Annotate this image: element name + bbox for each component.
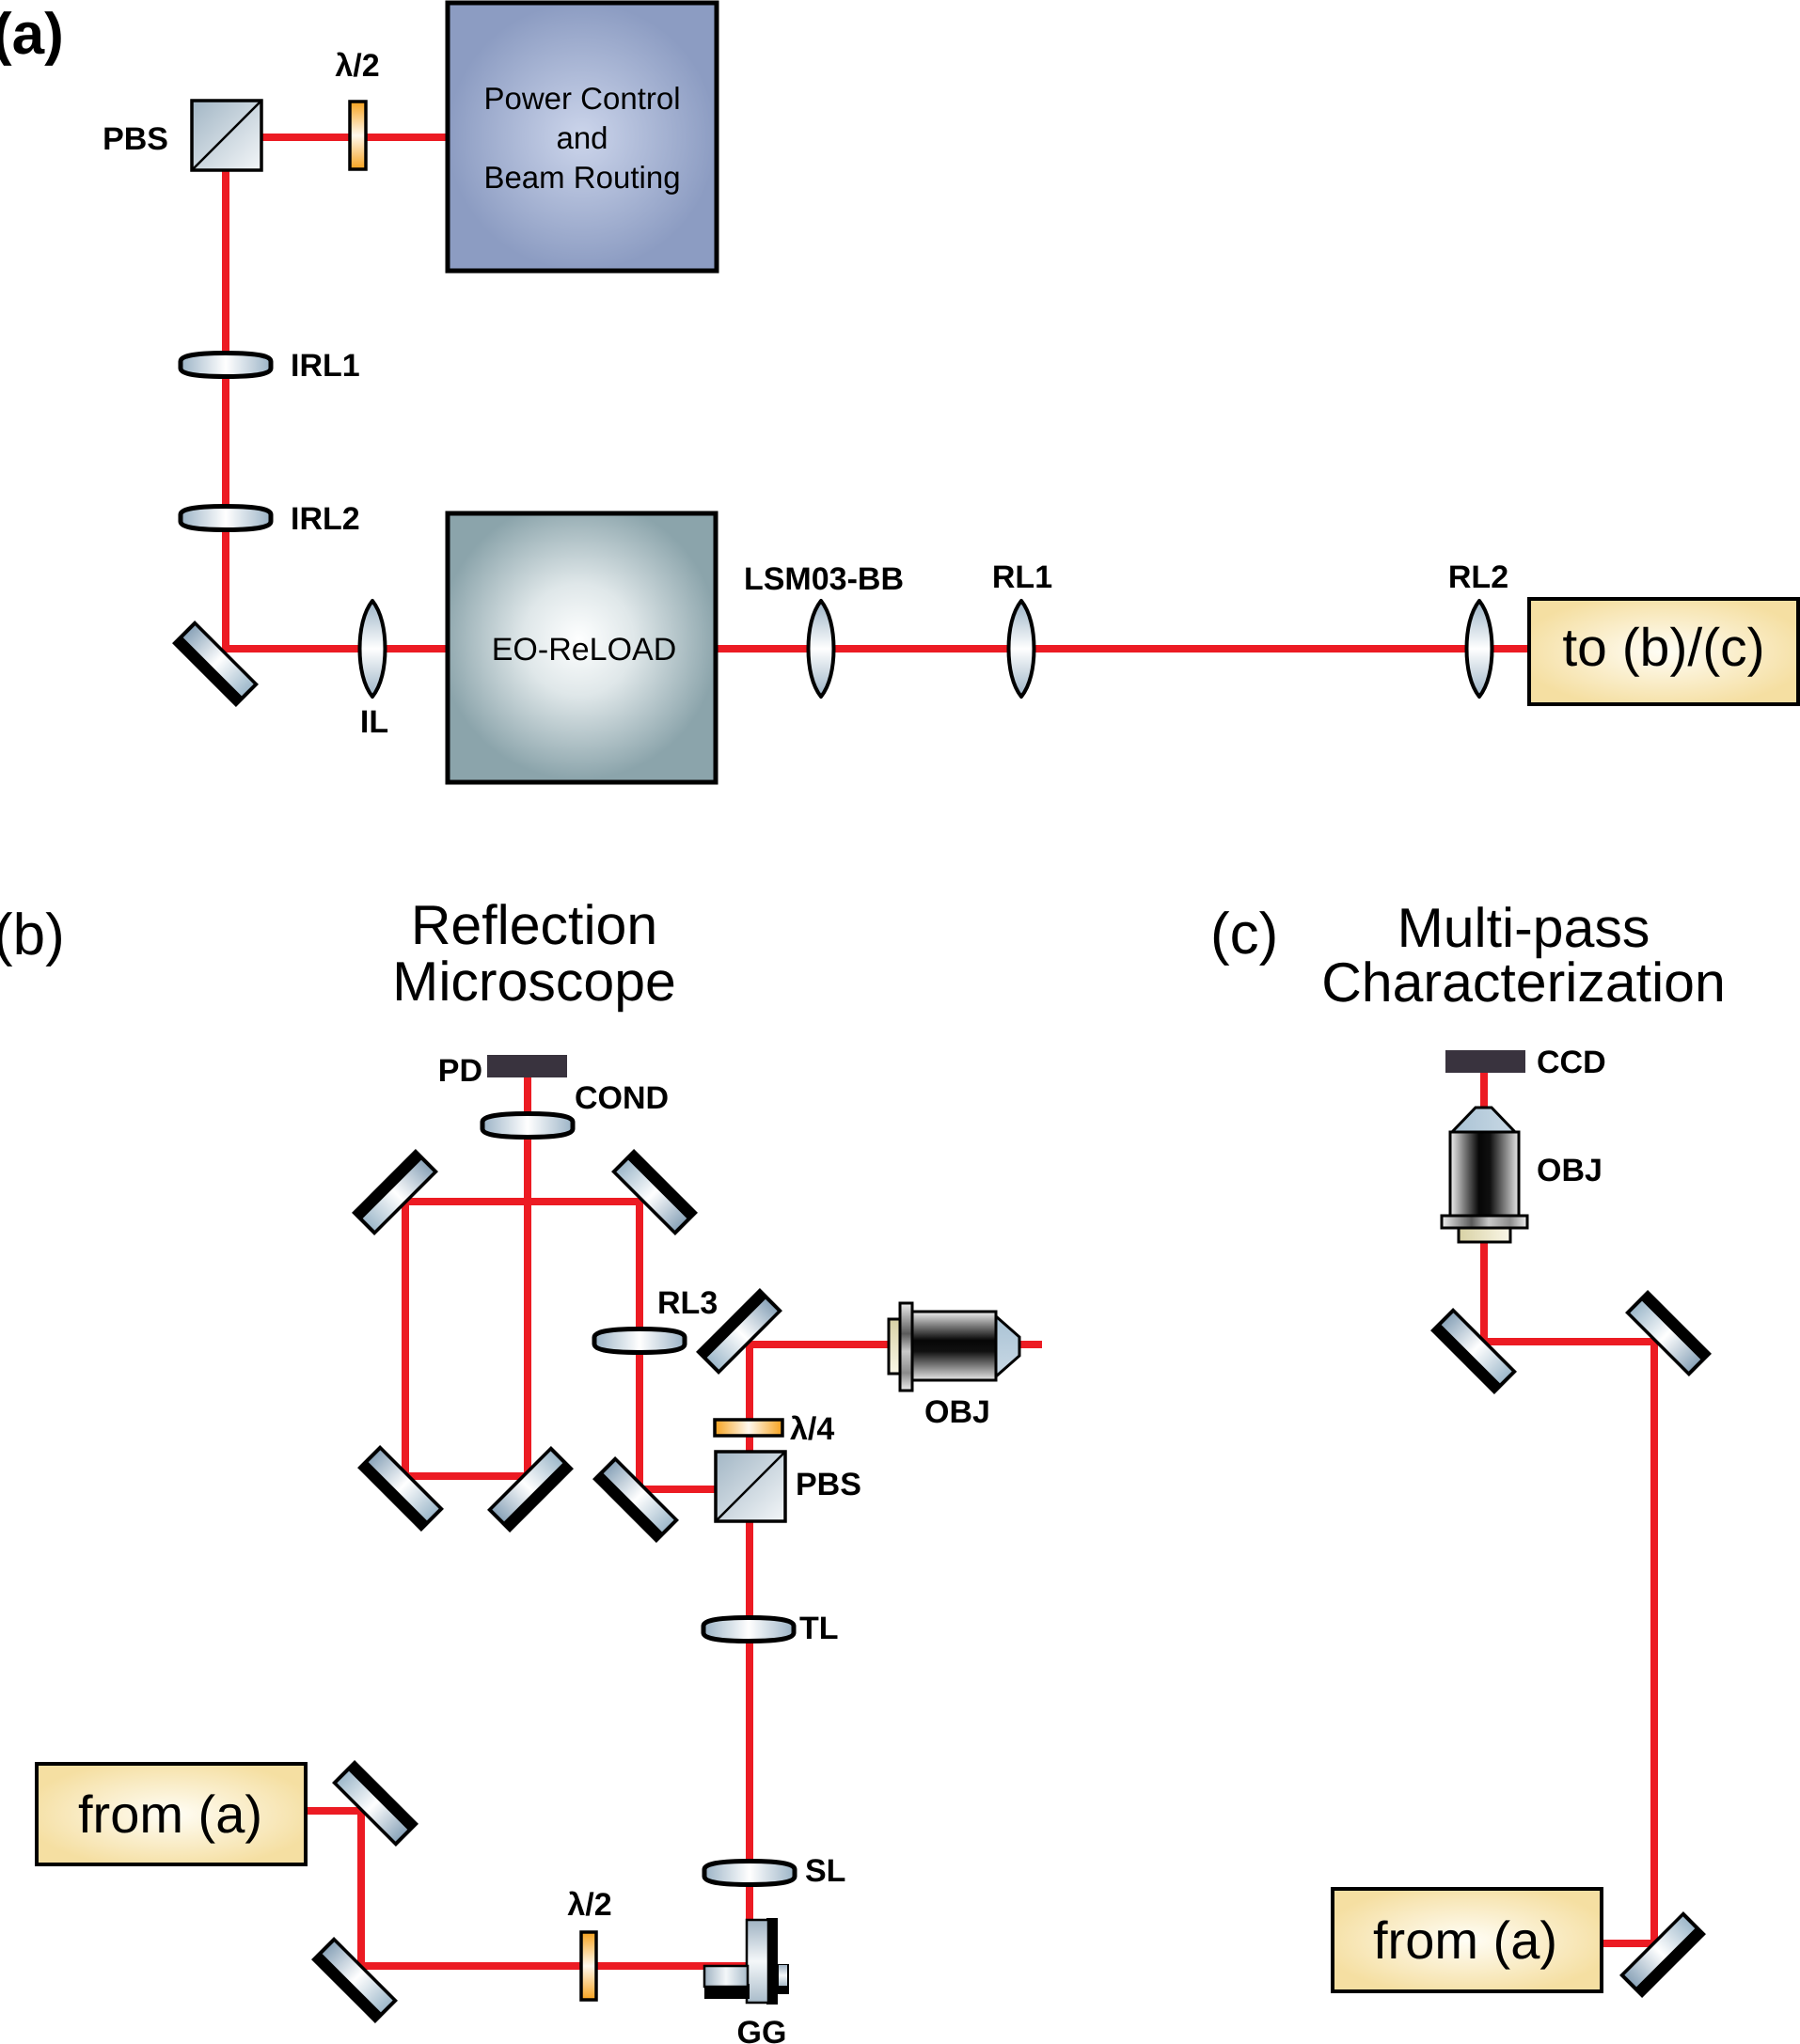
- objective OBJ (c) : cone tip: [1442, 1108, 1527, 1242]
- to (b)/(c) box: [1529, 599, 1798, 704]
- objective OBJ (b) : beige back plate: [889, 1303, 1019, 1391]
- mirror cM1 (c left): [1430, 1308, 1517, 1394]
- EO-ReLOAD box: [448, 513, 716, 782]
- lens RL2: [1467, 601, 1492, 697]
- svg-text:OBJ: OBJ: [924, 1394, 990, 1430]
- svg-text:(b): (b): [0, 903, 65, 967]
- svg-text:EO-ReLOAD: EO-ReLOAD: [492, 632, 677, 668]
- svg-text:λ/2: λ/2: [567, 1887, 611, 1923]
- photodiode PD: [487, 1055, 567, 1077]
- svg-text:and: and: [556, 120, 608, 155]
- svg-text:RL2: RL2: [1448, 559, 1508, 595]
- objective OBJ (c) : flange: [1442, 1216, 1527, 1228]
- svg-text:Characterization: Characterization: [1321, 951, 1726, 1014]
- svg-text:IRL1: IRL1: [291, 348, 360, 384]
- svg-text:IL: IL: [360, 704, 388, 740]
- mirror cM3 (c bottom): [1619, 1911, 1706, 1998]
- from (a) box (b): [37, 1764, 306, 1864]
- mirror M3 (b top-right): [611, 1149, 698, 1235]
- lens COND: [482, 1114, 573, 1138]
- svg-text:Reflection: Reflection: [411, 894, 657, 956]
- svg-text:Microscope: Microscope: [392, 951, 676, 1013]
- mirror M4 (b delay bottom-left): [357, 1445, 444, 1532]
- svg-text:GG: GG: [737, 2015, 787, 2044]
- PBS cube (a): [192, 101, 261, 170]
- lens SL: [704, 1862, 795, 1885]
- svg-text:to (b)/(c): to (b)/(c): [1562, 618, 1764, 678]
- lens LSM03-BB: [809, 601, 834, 697]
- objective OBJ (b) : flange: [900, 1303, 912, 1391]
- lens IRL1: [181, 354, 271, 377]
- wire PBS down, mirror corner, to EO-ReLOAD: [226, 167, 451, 649]
- svg-text:SL: SL: [805, 1853, 845, 1889]
- svg-text:RL3: RL3: [657, 1285, 718, 1321]
- mirror M1 (a): [172, 621, 259, 707]
- lens RL1: [1009, 601, 1034, 697]
- wire from (a) box through mirrors, lambda/2, GG, SL, TL, PBS, lambda/4 up to top mirror then to OBJ: [306, 1344, 892, 1966]
- waveplate lambda/2 (b): [581, 1932, 596, 2000]
- wire CCD to OBJ (c): [1480, 1072, 1488, 1109]
- svg-text:TL: TL: [799, 1611, 839, 1646]
- wire PBS to Power Control box: [261, 134, 451, 141]
- mirror M7 (b delay bottom-right): [487, 1446, 574, 1533]
- svg-text:(a): (a): [0, 2, 64, 67]
- lens IRL2: [181, 507, 271, 530]
- svg-text:PBS: PBS: [796, 1467, 861, 1502]
- mirror M5 (b near PBS): [592, 1456, 679, 1543]
- mirror M8 (b right of from-(a) box): [332, 1760, 418, 1847]
- from (a) box (c): [1333, 1889, 1602, 1991]
- wire OBJ (c) down, mirrors, to from-(a) box: [1484, 1241, 1654, 1943]
- objective OBJ (c) : body: [1450, 1132, 1519, 1220]
- svg-text:(c): (c): [1210, 902, 1278, 967]
- objective OBJ (c) : beige tip: [1459, 1228, 1510, 1242]
- svg-text:Power Control: Power Control: [483, 81, 680, 116]
- objective OBJ (b) : body: [912, 1312, 996, 1380]
- lens RL3: [594, 1329, 685, 1353]
- wire PBS reflected arm through RL3, delay mirrors, COND to PD: [405, 1077, 750, 1489]
- lens TL: [703, 1618, 794, 1642]
- mirror cM2 (c right): [1625, 1290, 1712, 1376]
- svg-text:Beam Routing: Beam Routing: [483, 160, 680, 195]
- svg-text:PBS: PBS: [103, 121, 168, 157]
- svg-text:CCD: CCD: [1537, 1045, 1606, 1080]
- camera CCD: [1445, 1050, 1525, 1073]
- svg-text:from (a): from (a): [78, 1785, 262, 1844]
- svg-text:Multi-pass: Multi-pass: [1397, 897, 1650, 959]
- wire EO-ReLOAD to to-(b)/(c) box: [713, 645, 1533, 653]
- Power Control and Beam Routing box: [448, 3, 717, 271]
- galvo GG assembly: [704, 1918, 789, 2005]
- mirror M6 (b above lambda/4): [696, 1288, 782, 1375]
- waveplate lambda/4: [715, 1420, 782, 1436]
- svg-text:COND: COND: [575, 1080, 669, 1116]
- svg-text:PD: PD: [438, 1053, 482, 1089]
- svg-text:IRL2: IRL2: [291, 501, 360, 537]
- mirror M2 (b top-left): [352, 1149, 438, 1235]
- svg-text:OBJ: OBJ: [1537, 1153, 1603, 1188]
- PBS cube (b): [716, 1452, 785, 1521]
- svg-text:λ/4: λ/4: [790, 1411, 834, 1447]
- svg-text:λ/2: λ/2: [335, 48, 379, 84]
- svg-text:RL1: RL1: [992, 559, 1052, 595]
- svg-text:LSM03-BB: LSM03-BB: [744, 561, 904, 597]
- wire OBJ exit beam: [1016, 1341, 1042, 1348]
- waveplate lambda/2 (a): [350, 102, 366, 169]
- mirror M9 (b bottom): [311, 1937, 398, 2023]
- objective OBJ (b) : cone tip: [996, 1316, 1019, 1376]
- lens IL: [360, 601, 386, 697]
- svg-text:from (a): from (a): [1373, 1910, 1557, 1970]
